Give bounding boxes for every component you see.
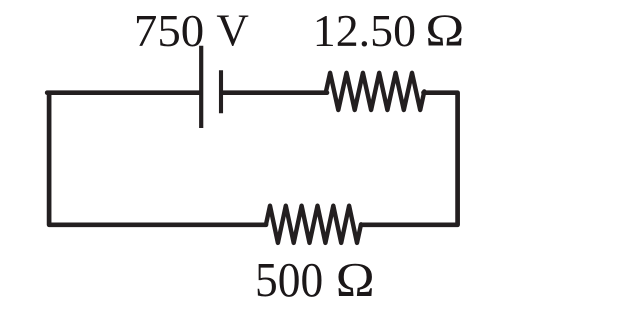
resistor R1 12.50 ohm zigzag (326, 73, 424, 110)
svg-text:Ω: Ω (425, 6, 464, 56)
wire: battery to resistor R1 (223, 90, 327, 95)
resistor R2 500 ohm zigzag (266, 206, 361, 243)
svg-text:Ω: Ω (336, 252, 375, 307)
svg-text:500: 500 (255, 252, 323, 307)
svg-text:750: 750 (134, 6, 204, 56)
svg-text:12.50: 12.50 (313, 6, 416, 56)
wire: R1 to R2 via right side (362, 93, 458, 225)
svg-text:V: V (216, 6, 249, 56)
battery B1 short plate (negative) (219, 70, 223, 113)
wire: left loop (top-left, left side, bottom-left) (47, 93, 266, 225)
battery B1 long plate (positive) (199, 46, 203, 128)
